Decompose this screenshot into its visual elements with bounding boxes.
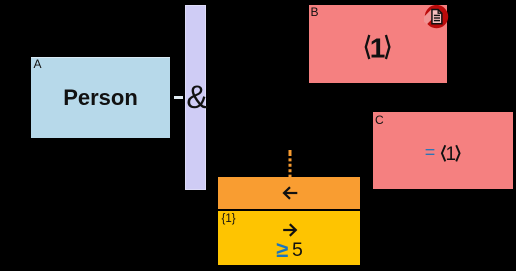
- svg-text:1: 1: [446, 144, 457, 165]
- svg-text:=: =: [425, 142, 436, 162]
- svg-text:1: 1: [370, 32, 386, 63]
